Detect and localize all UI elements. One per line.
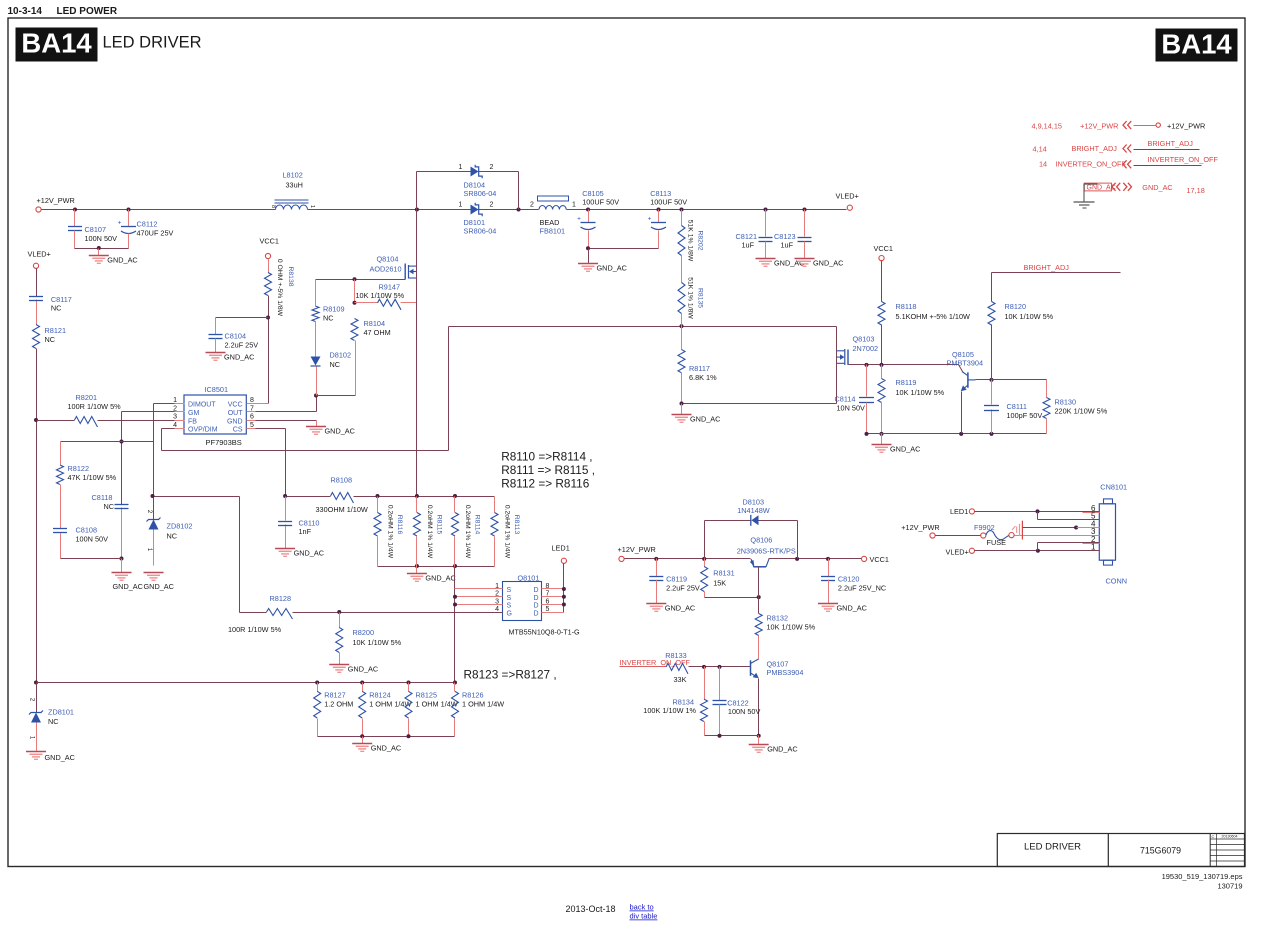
svg-text:S: S bbox=[507, 603, 512, 610]
svg-text:S: S bbox=[507, 587, 512, 594]
svg-text:DIMOUT: DIMOUT bbox=[188, 402, 216, 409]
resistor R8201 bbox=[37, 420, 75, 422]
svg-text:51K 1% 1/8W: 51K 1% 1/8W bbox=[687, 220, 694, 262]
svg-text:+: + bbox=[577, 216, 581, 223]
svg-text:33uH: 33uH bbox=[286, 181, 303, 190]
capacitor C8107 bbox=[74, 210, 76, 227]
svg-text:Q8103: Q8103 bbox=[853, 335, 875, 344]
svg-text:GND_AC: GND_AC bbox=[144, 582, 174, 591]
wire R8122 branch horizontals bbox=[61, 441, 154, 443]
resistor R8126 bbox=[454, 683, 456, 692]
svg-text:D: D bbox=[534, 603, 539, 610]
svg-text:100UF 50V: 100UF 50V bbox=[582, 198, 619, 207]
svg-text:33K: 33K bbox=[674, 675, 687, 684]
svg-text:GND_AC: GND_AC bbox=[774, 259, 804, 268]
svg-text:1uF: 1uF bbox=[742, 241, 755, 250]
resistor R8108 bbox=[286, 496, 331, 498]
ground GND_AC under C8110 bbox=[275, 548, 295, 550]
wire CS net vertical bbox=[285, 429, 287, 497]
svg-text:R8109: R8109 bbox=[323, 305, 345, 314]
wire OUT net node bbox=[316, 396, 318, 412]
svg-text:R8126: R8126 bbox=[462, 691, 484, 700]
svg-text:BRIGHT_ADJ: BRIGHT_ADJ bbox=[1024, 263, 1070, 272]
svg-text:NC: NC bbox=[48, 717, 59, 726]
svg-text:R8202: R8202 bbox=[697, 230, 704, 250]
svg-text:4,9,14,15: 4,9,14,15 bbox=[1032, 122, 1062, 131]
svg-text:R8128: R8128 bbox=[270, 594, 292, 603]
svg-text:GND_AC: GND_AC bbox=[1142, 183, 1172, 192]
svg-text:GND_AC: GND_AC bbox=[294, 549, 324, 558]
svg-text:D: D bbox=[534, 587, 539, 594]
capacitor C8121 bbox=[765, 210, 767, 237]
svg-text:C8111: C8111 bbox=[1007, 402, 1027, 411]
svg-text:10K 1/10W 5%: 10K 1/10W 5% bbox=[1005, 312, 1054, 321]
resistor R8131 bbox=[704, 559, 706, 567]
capacitor C8114 bbox=[866, 365, 868, 397]
svg-text:1 OHM 1/4W: 1 OHM 1/4W bbox=[462, 700, 504, 709]
wire bottom bank rail bbox=[318, 736, 455, 738]
svg-text:NC: NC bbox=[51, 304, 62, 313]
title block bbox=[997, 834, 1244, 867]
svg-text:Q8106: Q8106 bbox=[750, 536, 772, 545]
wire left VLED+ vertical bbox=[36, 269, 38, 297]
svg-text:SR806-04: SR806-04 bbox=[464, 227, 497, 236]
svg-text:2.2uF 25V: 2.2uF 25V bbox=[225, 341, 259, 350]
svg-text:+12V_PWR: +12V_PWR bbox=[37, 196, 75, 205]
svg-text:ZD8102: ZD8102 bbox=[167, 522, 193, 531]
ground GND_AC at IC pin6 bbox=[306, 426, 326, 428]
svg-text:+12V_PWR: +12V_PWR bbox=[1167, 122, 1205, 131]
pin 6 GND lead bbox=[247, 420, 256, 422]
svg-text:C8108: C8108 bbox=[76, 526, 98, 535]
svg-text:R8132: R8132 bbox=[767, 614, 789, 623]
wire bottom rail Q8105 area bbox=[867, 433, 1047, 435]
svg-text:R8115: R8115 bbox=[435, 515, 442, 535]
svg-text:10K 1/10W 5%: 10K 1/10W 5% bbox=[767, 623, 816, 632]
svg-text:5: 5 bbox=[250, 422, 254, 429]
svg-text:+: + bbox=[648, 216, 652, 223]
svg-text:+: + bbox=[118, 220, 122, 227]
resistor R8122 bbox=[57, 465, 64, 485]
svg-text:1: 1 bbox=[459, 164, 463, 171]
svg-text:330OHM 1/10W: 330OHM 1/10W bbox=[316, 505, 368, 514]
capacitor C8118 bbox=[115, 504, 129, 506]
svg-text:10N 50V: 10N 50V bbox=[837, 404, 866, 413]
svg-text:R8125: R8125 bbox=[416, 691, 438, 700]
svg-text:GND_AC: GND_AC bbox=[767, 745, 797, 754]
svg-text:PMBT3904: PMBT3904 bbox=[947, 359, 984, 368]
svg-text:R8138: R8138 bbox=[287, 266, 294, 286]
svg-text:NC: NC bbox=[323, 314, 334, 323]
svg-text:6.8K 1%: 6.8K 1% bbox=[689, 373, 717, 382]
wire GM net vertical bbox=[121, 412, 123, 505]
resistor R8202 bbox=[681, 210, 683, 226]
svg-text:C8112: C8112 bbox=[137, 220, 158, 229]
svg-text:R8117: R8117 bbox=[689, 364, 710, 373]
svg-text:IC8501: IC8501 bbox=[205, 385, 229, 394]
svg-text:R8127: R8127 bbox=[324, 691, 346, 700]
node GND_AC off-page flag bbox=[1084, 183, 1111, 191]
svg-text:130719: 130719 bbox=[1217, 882, 1242, 891]
svg-text:0.2oHM 1% 1/4W: 0.2oHM 1% 1/4W bbox=[387, 505, 394, 559]
svg-text:MTB55N10Q8-0-T1-G: MTB55N10Q8-0-T1-G bbox=[509, 628, 581, 637]
capacitor C8117 bbox=[29, 296, 43, 298]
svg-text:2.2uF 25V_NC: 2.2uF 25V_NC bbox=[838, 584, 886, 593]
svg-text:SR806-04: SR806-04 bbox=[464, 189, 497, 198]
resistor R8121 bbox=[33, 325, 40, 349]
svg-text:GND_AC: GND_AC bbox=[107, 256, 137, 265]
svg-text:+12V_PWR: +12V_PWR bbox=[618, 545, 656, 554]
svg-text:10K 1/10W 5%: 10K 1/10W 5% bbox=[896, 388, 945, 397]
svg-text:GND_AC: GND_AC bbox=[813, 259, 843, 268]
capacitor C8122 bbox=[719, 667, 721, 701]
svg-text:GND: GND bbox=[227, 418, 243, 425]
ground GND_AC under R8117 bbox=[672, 414, 692, 416]
svg-text:VLED+: VLED+ bbox=[836, 192, 859, 201]
BA14 title box right bbox=[1156, 29, 1238, 62]
pin 1 DIMOUT lead bbox=[175, 403, 185, 405]
svg-text:1: 1 bbox=[459, 202, 463, 209]
svg-text:NC: NC bbox=[330, 360, 341, 369]
ground GND_AC under sense bank bbox=[416, 567, 418, 574]
svg-text:15K: 15K bbox=[713, 579, 726, 588]
wire VLED+ to pins 1,2 bbox=[975, 550, 1100, 552]
surge suppressor symbol bbox=[1021, 521, 1023, 540]
BA14 title box left bbox=[16, 28, 98, 62]
svg-text:0.2oHM 1% 1/4W: 0.2oHM 1% 1/4W bbox=[504, 505, 511, 559]
resistor R8138 bbox=[265, 273, 272, 296]
svg-text:R8114: R8114 bbox=[474, 515, 481, 535]
wire Q8104 drain-source vertical bbox=[416, 210, 418, 303]
svg-text:8: 8 bbox=[270, 205, 276, 208]
svg-text:19530_519_130719.eps: 19530_519_130719.eps bbox=[1162, 872, 1243, 881]
svg-text:470UF 25V: 470UF 25V bbox=[137, 229, 174, 238]
ground GND_AC under C8121 bbox=[756, 258, 776, 260]
capacitor C8112 bbox=[128, 210, 130, 227]
zener diode ZD8101 bbox=[36, 683, 38, 713]
svg-text:2.2uF 25V: 2.2uF 25V bbox=[666, 584, 700, 593]
svg-text:51K 1% 1/8W: 51K 1% 1/8W bbox=[687, 277, 694, 319]
wire R9147/R8104 junction bbox=[354, 280, 356, 303]
svg-text:FB8101: FB8101 bbox=[540, 227, 566, 236]
svg-text:4,14: 4,14 bbox=[1033, 145, 1047, 154]
svg-text:+12V_PWR: +12V_PWR bbox=[901, 523, 939, 532]
svg-text:R8124: R8124 bbox=[369, 691, 391, 700]
ground GND_AC under C8119 bbox=[646, 603, 666, 605]
wire Q8107 emitter/collector bbox=[758, 679, 760, 736]
svg-text:GND_AC: GND_AC bbox=[224, 353, 254, 362]
svg-text:C8114: C8114 bbox=[835, 395, 856, 404]
svg-text:LED DRIVER: LED DRIVER bbox=[103, 34, 202, 52]
wire sense bank top rail bbox=[378, 496, 495, 498]
resistor R8135 bbox=[681, 256, 683, 283]
svg-text:R8118: R8118 bbox=[896, 302, 917, 311]
svg-text:10K 1/10W 5%: 10K 1/10W 5% bbox=[356, 291, 405, 300]
wire R8128 branch bbox=[239, 497, 241, 613]
svg-text:R8111 => R8115 ,: R8111 => R8115 , bbox=[501, 463, 595, 477]
svg-text:0 OHM +-5% 1/8W: 0 OHM +-5% 1/8W bbox=[276, 259, 283, 317]
svg-text:R8131: R8131 bbox=[713, 569, 735, 578]
svg-text:CS: CS bbox=[233, 427, 243, 434]
svg-text:1.2 OHM: 1.2 OHM bbox=[324, 700, 353, 709]
wire VCC1 vertical bbox=[268, 259, 270, 273]
node VCC1 terminal lower bbox=[862, 556, 867, 561]
resistor R8127 bbox=[317, 683, 319, 692]
wire suppressor to pin4 bbox=[1023, 527, 1077, 529]
wire Q8101 source pins to sense bank bbox=[454, 567, 456, 683]
svg-text:100N 50V: 100N 50V bbox=[85, 234, 118, 243]
svg-text:VCC1: VCC1 bbox=[260, 237, 279, 246]
resistor R8117 bbox=[681, 327, 683, 350]
svg-text:LED DRIVER: LED DRIVER bbox=[1024, 842, 1081, 853]
svg-text:+12V_PWR: +12V_PWR bbox=[1080, 122, 1118, 131]
svg-text:div table: div table bbox=[630, 912, 658, 921]
svg-text:R8201: R8201 bbox=[76, 393, 98, 402]
resistor R8128 bbox=[240, 612, 267, 614]
svg-text:FUSE: FUSE bbox=[987, 538, 1007, 547]
ground GND_AC under C8118 bbox=[112, 572, 132, 574]
svg-text:100R 1/10W 5%: 100R 1/10W 5% bbox=[68, 402, 122, 411]
svg-text:back to: back to bbox=[630, 903, 654, 912]
svg-text:17,18: 17,18 bbox=[1187, 186, 1205, 195]
svg-text:1: 1 bbox=[309, 205, 315, 208]
capacitor C8108 bbox=[53, 528, 67, 530]
svg-text:PF7903BS: PF7903BS bbox=[206, 438, 242, 447]
svg-text:715G6079: 715G6079 bbox=[1140, 846, 1181, 856]
pin 2 GM lead bbox=[175, 411, 185, 413]
svg-text:GND_AC: GND_AC bbox=[837, 604, 867, 613]
resistor R8104 bbox=[351, 319, 358, 341]
svg-text:GND_AC: GND_AC bbox=[690, 415, 720, 424]
svg-text:D8102: D8102 bbox=[330, 351, 352, 360]
pin 4 OVP/DIM lead bbox=[175, 428, 185, 430]
resistor R8200 bbox=[339, 613, 341, 628]
svg-text:1uF: 1uF bbox=[781, 241, 794, 250]
capacitor C8104 bbox=[216, 317, 269, 319]
wire Q8101 gate lead bbox=[340, 612, 503, 614]
svg-text:2013-Oct-18: 2013-Oct-18 bbox=[566, 904, 616, 914]
svg-text:C8107: C8107 bbox=[85, 225, 107, 234]
wire fuse to pin3 bbox=[1015, 535, 1100, 537]
resistor R8109 bbox=[315, 280, 317, 307]
wire Q8103 gate to R8119 node bbox=[849, 364, 959, 366]
pin 5 CS lead bbox=[247, 428, 256, 430]
wire +12V lower rail bbox=[625, 558, 751, 560]
svg-text:R8120: R8120 bbox=[1005, 302, 1027, 311]
svg-text:INVERTER_ON_OFF: INVERTER_ON_OFF bbox=[1056, 160, 1127, 169]
resistor R8118 bbox=[881, 261, 883, 302]
svg-text:VLED+: VLED+ bbox=[28, 250, 51, 259]
resistor R9147 bbox=[355, 302, 378, 304]
wire sense bank bottom rail bbox=[378, 566, 495, 568]
svg-text:CONN: CONN bbox=[1106, 577, 1128, 586]
wire LED return bus bbox=[37, 682, 455, 684]
svg-text:VCC1: VCC1 bbox=[870, 555, 889, 564]
svg-text:GM: GM bbox=[188, 410, 199, 417]
svg-text:R8104: R8104 bbox=[364, 319, 386, 328]
svg-text:GND_AC: GND_AC bbox=[425, 574, 455, 583]
svg-text:R8200: R8200 bbox=[353, 628, 375, 637]
ground chassis symbol at flag bbox=[1084, 184, 1098, 201]
ground GND_AC under R8200 bbox=[329, 664, 349, 666]
resistor R8125 bbox=[408, 683, 410, 692]
svg-text:D: D bbox=[534, 595, 539, 602]
svg-text:6: 6 bbox=[250, 414, 254, 421]
svg-text:1: 1 bbox=[173, 397, 177, 404]
ground GND_AC under R8119 bbox=[872, 444, 892, 446]
wire main +12V rail bbox=[42, 209, 276, 211]
svg-text:GND_AC: GND_AC bbox=[1087, 185, 1116, 192]
svg-text:BRIGHT_ADJ: BRIGHT_ADJ bbox=[1072, 144, 1118, 153]
ground GND_AC under ZD8101 bbox=[26, 751, 46, 753]
svg-text:100R 1/10W 5%: 100R 1/10W 5% bbox=[228, 625, 282, 634]
svg-text:AOD2610: AOD2610 bbox=[370, 265, 402, 274]
svg-text:OUT: OUT bbox=[228, 410, 244, 417]
svg-text:R8112 => R8116: R8112 => R8116 bbox=[501, 477, 590, 491]
svg-text:100pF 50V: 100pF 50V bbox=[1007, 411, 1043, 420]
svg-text:ZD8101: ZD8101 bbox=[48, 708, 74, 717]
svg-text:R8113: R8113 bbox=[513, 515, 520, 535]
svg-text:2: 2 bbox=[490, 164, 494, 171]
ground GND_AC under C8123 bbox=[795, 258, 815, 260]
svg-text:R8116: R8116 bbox=[396, 515, 403, 535]
svg-text:C: C bbox=[1212, 834, 1215, 839]
svg-text:100N 50V: 100N 50V bbox=[76, 535, 109, 544]
svg-text:R8108: R8108 bbox=[331, 476, 353, 485]
pin 8 VCC lead bbox=[247, 403, 269, 405]
wire +12V to fuse bbox=[936, 535, 981, 537]
svg-text:20130604: 20130604 bbox=[1222, 835, 1238, 839]
svg-text:LED1: LED1 bbox=[950, 507, 968, 516]
resistor R8124 bbox=[362, 683, 364, 692]
resistor R8134 bbox=[704, 667, 706, 700]
ground GND_AC under C8105 bbox=[578, 263, 598, 265]
svg-text:NC: NC bbox=[167, 532, 178, 541]
pin 7 OUT lead bbox=[247, 411, 256, 413]
wire R8120/C8111 node bbox=[990, 378, 994, 382]
svg-text:GND_AC: GND_AC bbox=[890, 445, 920, 454]
svg-text:47 OHM: 47 OHM bbox=[364, 328, 391, 337]
svg-text:S: S bbox=[507, 595, 512, 602]
resistor R8119 bbox=[881, 365, 883, 379]
svg-text:100N 50V: 100N 50V bbox=[728, 707, 761, 716]
resistor R8115 bbox=[416, 497, 418, 513]
svg-text:R8135: R8135 bbox=[697, 288, 704, 308]
svg-text:1N4148W: 1N4148W bbox=[737, 506, 770, 515]
svg-text:NC: NC bbox=[104, 502, 115, 511]
wire LED1 to drain pins bbox=[563, 564, 565, 613]
wire C8107/C8112 ground rail bbox=[75, 248, 129, 250]
wire R8130 top rail bbox=[992, 379, 1047, 381]
wire R8109 gate rail bbox=[316, 279, 406, 281]
svg-text:47K 1/10W 5%: 47K 1/10W 5% bbox=[68, 473, 117, 482]
svg-text:1nF: 1nF bbox=[299, 527, 312, 536]
svg-text:C8104: C8104 bbox=[225, 332, 247, 341]
ground GND_AC under Q8107 bbox=[749, 744, 769, 746]
svg-text:C8120: C8120 bbox=[838, 575, 860, 584]
svg-text:14: 14 bbox=[1039, 160, 1047, 169]
ground GND_AC under C8104 bbox=[206, 352, 226, 354]
resistor R8120 with BRIGHT_ADJ wire bbox=[992, 272, 1121, 274]
ground GND_AC under R-bank bbox=[352, 743, 372, 745]
resistor R8132 bbox=[755, 614, 762, 636]
diode D8102 bbox=[311, 357, 321, 366]
svg-text:NC: NC bbox=[45, 335, 56, 344]
diode D8103 1N4148W with loop bbox=[704, 521, 706, 559]
svg-text:OVP/DIM: OVP/DIM bbox=[188, 427, 218, 434]
svg-text:0.2oHM 1% 1/4W: 0.2oHM 1% 1/4W bbox=[464, 505, 471, 559]
svg-text:INVERTER_ON_OFF: INVERTER_ON_OFF bbox=[1148, 155, 1219, 164]
svg-text:R8122: R8122 bbox=[68, 464, 90, 473]
svg-text:R8133: R8133 bbox=[665, 651, 687, 660]
svg-text:FB: FB bbox=[188, 418, 197, 425]
svg-text:3: 3 bbox=[173, 414, 177, 421]
svg-text:BRIGHT_ADJ: BRIGHT_ADJ bbox=[1148, 139, 1194, 148]
pin 3 FB lead bbox=[175, 420, 185, 422]
svg-text:R8130: R8130 bbox=[1055, 398, 1077, 407]
svg-text:BA14: BA14 bbox=[1161, 29, 1232, 60]
resistor R8116 bbox=[377, 497, 379, 513]
capacitor C8110 bbox=[278, 521, 292, 523]
svg-text:C8118: C8118 bbox=[92, 493, 113, 502]
svg-text:GND_AC: GND_AC bbox=[45, 753, 75, 762]
wire Q8107 bottom rail bbox=[705, 735, 759, 737]
resistor R8113 bbox=[494, 497, 496, 513]
svg-text:R8119: R8119 bbox=[896, 378, 917, 387]
capacitor C8111 bbox=[984, 405, 999, 407]
ground GND_AC under ZD8102 bbox=[144, 572, 164, 574]
diode D8104 with branch wire bbox=[416, 172, 418, 210]
svg-text:GND_AC: GND_AC bbox=[665, 604, 695, 613]
svg-text:LED1: LED1 bbox=[552, 544, 570, 553]
capacitor C8120 bbox=[828, 559, 830, 577]
ground GND_AC under C8120 bbox=[818, 603, 838, 605]
resistor R8114 bbox=[454, 497, 456, 513]
svg-text:5.1KOHM +-5% 1/10W: 5.1KOHM +-5% 1/10W bbox=[896, 312, 971, 321]
svg-text:LED POWER: LED POWER bbox=[57, 6, 118, 17]
svg-text:D: D bbox=[534, 610, 539, 617]
svg-text:PMBS3904: PMBS3904 bbox=[767, 668, 804, 677]
svg-text:R8121: R8121 bbox=[45, 326, 67, 335]
svg-text:C8119: C8119 bbox=[666, 575, 687, 584]
svg-text:2N7002: 2N7002 bbox=[853, 344, 879, 353]
svg-text:R8110 =>R8114 ,: R8110 =>R8114 , bbox=[501, 450, 592, 464]
svg-text:Q8104: Q8104 bbox=[377, 255, 399, 264]
svg-text:2: 2 bbox=[530, 202, 534, 209]
resistor R8133 bbox=[666, 663, 688, 674]
svg-text:CN8101: CN8101 bbox=[1100, 483, 1127, 492]
svg-text:G: G bbox=[507, 610, 512, 617]
svg-text:GND_AC: GND_AC bbox=[325, 427, 355, 436]
svg-text:2N3906S-RTK/PS: 2N3906S-RTK/PS bbox=[737, 547, 796, 556]
svg-text:GND_AC: GND_AC bbox=[371, 744, 401, 753]
capacitor C8119 bbox=[656, 559, 658, 577]
ground GND_AC under C8112 bbox=[89, 255, 109, 257]
svg-text:BA14: BA14 bbox=[21, 28, 92, 59]
capacitor C8123 bbox=[804, 210, 806, 237]
wire Q8106 base vertical bbox=[758, 567, 760, 614]
svg-text:GND_AC: GND_AC bbox=[348, 665, 378, 674]
svg-text:VCC: VCC bbox=[228, 402, 243, 409]
svg-text:GND_AC: GND_AC bbox=[113, 582, 143, 591]
svg-text:GND_AC: GND_AC bbox=[597, 264, 627, 273]
resistor R8130 bbox=[1046, 380, 1048, 398]
svg-text:10-3-14: 10-3-14 bbox=[8, 6, 43, 17]
svg-text:L8102: L8102 bbox=[283, 171, 303, 180]
svg-text:0.2oHM 1% 1/4W: 0.2oHM 1% 1/4W bbox=[426, 505, 433, 559]
svg-text:100UF 50V: 100UF 50V bbox=[650, 198, 687, 207]
svg-text:4: 4 bbox=[173, 422, 177, 429]
